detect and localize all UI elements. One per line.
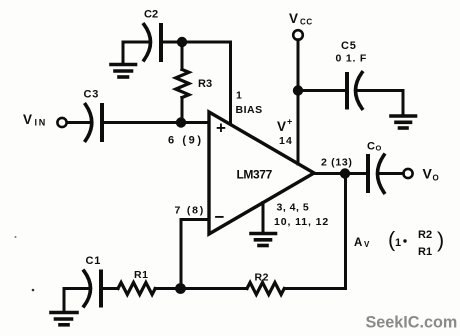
svg-text:0 1. F: 0 1. F xyxy=(336,53,368,65)
svg-text:3, 4, 5: 3, 4, 5 xyxy=(277,202,310,214)
op-amp U1 LM377 xyxy=(209,112,314,234)
terminal VIN xyxy=(23,112,67,128)
svg-text:A: A xyxy=(354,237,362,249)
svg-text:V: V xyxy=(289,11,298,26)
svg-text:2 (13): 2 (13) xyxy=(321,157,353,169)
wire R1 to node xyxy=(155,287,180,290)
svg-text:IN: IN xyxy=(35,118,48,128)
node VCC/C5 junction xyxy=(293,85,303,95)
svg-text:C: C xyxy=(367,141,375,153)
capacitor C5 xyxy=(336,40,368,109)
svg-text:V: V xyxy=(277,119,286,134)
svg-text:C5: C5 xyxy=(341,40,357,52)
pin 1 label BIAS xyxy=(236,90,263,117)
capacitor CO xyxy=(367,141,384,193)
svg-text:1: 1 xyxy=(395,237,401,249)
svg-text:R1: R1 xyxy=(134,269,149,281)
wire C5 to ground xyxy=(356,91,403,115)
wire VIN to C3 xyxy=(67,121,90,124)
svg-text:): ) xyxy=(437,228,444,252)
svg-text:R2: R2 xyxy=(418,229,432,241)
ground (C5) xyxy=(391,116,416,128)
svg-text:R2: R2 xyxy=(255,272,270,284)
node output 2 (13) xyxy=(321,157,353,179)
svg-text:V: V xyxy=(423,166,433,182)
svg-text:−: − xyxy=(215,208,225,227)
node C2/R3 junction xyxy=(177,37,187,47)
wire VCC to V+ pin 14 xyxy=(297,40,300,164)
svg-text:R1: R1 xyxy=(418,246,432,258)
svg-text:+: + xyxy=(216,119,226,138)
svg-text:7 (8): 7 (8) xyxy=(175,205,206,217)
scan speck xyxy=(15,236,17,238)
wire inverting input xyxy=(181,220,209,289)
node 6 (9) xyxy=(168,117,204,146)
svg-text:C2: C2 xyxy=(144,9,158,21)
svg-text:14: 14 xyxy=(279,135,293,147)
svg-text:+: + xyxy=(287,117,292,127)
svg-text:R3: R3 xyxy=(198,78,212,90)
pin 14 label V+ xyxy=(277,117,293,148)
svg-text:C3: C3 xyxy=(84,89,100,101)
wire node to R2 xyxy=(181,287,248,290)
ground (C1) xyxy=(51,289,77,325)
terminal VO xyxy=(403,166,438,183)
svg-text:V: V xyxy=(364,240,370,249)
wire VCC node to C5 xyxy=(298,89,345,92)
resistor R3 xyxy=(176,42,212,123)
scan speck xyxy=(32,289,35,292)
wire feedback from output node down to R2 xyxy=(285,174,346,289)
terminal VCC xyxy=(289,11,313,40)
wire ground to C1 xyxy=(64,287,88,290)
svg-text:O: O xyxy=(433,174,439,183)
svg-text:SeekIC.com: SeekIC.com xyxy=(366,314,458,332)
capacitor C3 xyxy=(84,89,103,141)
wire output xyxy=(314,172,366,175)
node R1/R2/riser junction xyxy=(175,283,186,294)
wire C2 to node and pin 1 corner xyxy=(161,42,231,125)
svg-text:1: 1 xyxy=(236,90,242,102)
wire C1 to R1 xyxy=(101,287,118,290)
svg-text:O: O xyxy=(376,144,382,153)
svg-text:CC: CC xyxy=(300,18,313,27)
wire C3 to op-amp + input xyxy=(102,121,209,124)
ground (op-amp) xyxy=(251,203,276,246)
capacitor C2 xyxy=(144,9,161,61)
resistor R2 xyxy=(247,272,284,295)
svg-text:BIAS: BIAS xyxy=(236,104,263,116)
ground (C2 branch) xyxy=(111,42,136,77)
svg-text:6 (9): 6 (9) xyxy=(168,135,204,147)
svg-text:10, 11, 12: 10, 11, 12 xyxy=(274,216,329,228)
wire ground to C2 xyxy=(123,41,148,44)
wire CO to VO xyxy=(378,172,403,175)
svg-text:V: V xyxy=(23,112,32,127)
svg-text:C1: C1 xyxy=(86,255,102,267)
gain formula AV (1 + R2/R1) xyxy=(354,228,444,259)
resistor R1 xyxy=(118,269,155,295)
capacitor C1 xyxy=(84,255,101,306)
pin labels 3,4,5 / 10,11,12 xyxy=(274,202,329,229)
svg-text:LM377: LM377 xyxy=(237,168,273,182)
